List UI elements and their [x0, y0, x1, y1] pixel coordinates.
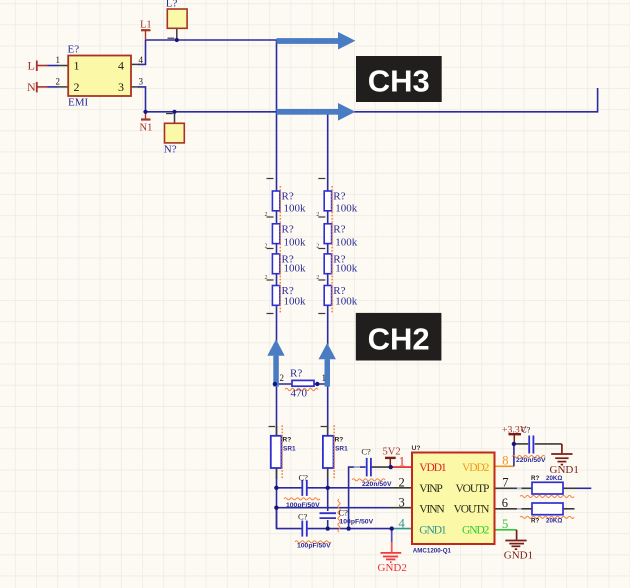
svg-text:GND1: GND1	[419, 524, 447, 536]
svg-text:N?: N?	[164, 144, 177, 156]
pin EMI pin4 stub	[131, 63, 139, 65]
svg-text:SR1: SR1	[335, 445, 348, 452]
svg-text:R?: R?	[531, 518, 539, 525]
svg-text:100pF/50V: 100pF/50V	[286, 502, 320, 509]
pin names U? left	[419, 462, 447, 536]
resistor ladder left column bodies R? 100k x4	[272, 191, 279, 305]
svg-text:220n/50V: 220n/50V	[362, 481, 392, 488]
svg-text:EMI: EMI	[68, 97, 89, 109]
wire VOUTN after 20K	[563, 508, 575, 510]
ground GND1 top-right symbol	[551, 444, 572, 465]
wire VOUTP tail navy	[576, 487, 591, 489]
svg-text:VOUTP: VOUTP	[455, 483, 489, 495]
svg-text:100k: 100k	[335, 203, 358, 215]
svg-text:2: 2	[265, 244, 268, 250]
svg-text:100k: 100k	[335, 236, 358, 248]
wire EMI pin3 to N1 net	[138, 87, 146, 112]
resistor R? 470 body	[292, 380, 314, 386]
label R? SR1 left	[283, 436, 297, 452]
wire VINP net y=487.8	[276, 487, 390, 489]
svg-text:470: 470	[291, 388, 308, 400]
wire VINN net y=507.7	[276, 507, 390, 509]
resistor SR1 left body	[269, 426, 282, 480]
ladder pin tick marks left column	[267, 179, 274, 314]
svg-text:L1: L1	[140, 20, 152, 31]
svg-text:20KΩ: 20KΩ	[546, 475, 562, 482]
port N bracket	[36, 82, 38, 93]
svg-text:2: 2	[265, 275, 268, 281]
svg-text:+3.3V: +3.3V	[502, 424, 527, 435]
resistor R? 20K upper body	[532, 482, 563, 494]
capacitor C? 220n/50V near +3.3V	[529, 436, 533, 454]
label R? 20K lower	[531, 518, 562, 525]
svg-text:R?: R?	[335, 436, 344, 443]
resistor SR1 right body	[321, 426, 334, 480]
label CH2 black box	[356, 313, 442, 361]
svg-text:4: 4	[139, 55, 144, 65]
pin U? pin3 stub	[390, 507, 412, 509]
resistor ladder right column bodies R? 100k x4	[324, 191, 331, 305]
svg-text:100k: 100k	[335, 296, 358, 308]
svg-text:1: 1	[74, 59, 80, 73]
svg-text:R?: R?	[290, 367, 302, 379]
svg-text:R?: R?	[282, 191, 294, 203]
wire +3.3V node to 220n cap	[514, 443, 528, 445]
pin numbers U? left	[399, 454, 406, 530]
ground GND1 bottom symbol (pin5)	[505, 530, 526, 549]
svg-text:220n/50V: 220n/50V	[516, 457, 546, 464]
svg-text:2: 2	[399, 475, 405, 489]
svg-text:GND2: GND2	[462, 524, 490, 536]
squiggle 220n near +3.3V	[512, 455, 545, 457]
junction L? tap	[175, 38, 179, 42]
svg-text:E?: E?	[68, 44, 80, 56]
svg-text:CH3: CH3	[368, 64, 430, 99]
svg-text:3: 3	[139, 76, 144, 86]
compile-mark dotted line SR1 right	[333, 425, 335, 479]
ground GND2 symbol (pin4 net)	[381, 529, 402, 563]
squiggle under 20K upper	[520, 495, 574, 497]
svg-text:7: 7	[502, 476, 508, 490]
labels ladder right column	[333, 191, 358, 308]
svg-text:VDD1: VDD1	[419, 462, 447, 474]
svg-text:AMC1200-Q1: AMC1200-Q1	[413, 548, 452, 555]
junction N? tap	[172, 110, 176, 114]
svg-text:R?: R?	[333, 223, 345, 235]
labels ladder left column	[282, 191, 307, 308]
svg-text:1: 1	[322, 373, 327, 383]
svg-text:GND1: GND1	[504, 549, 533, 561]
junction VINP net right column	[326, 486, 330, 490]
wire L? tap	[176, 28, 178, 40]
faint compile dash pin7	[517, 487, 522, 489]
inductor N? body	[165, 114, 185, 143]
svg-text:GND2: GND2	[378, 562, 407, 574]
capacitor C? 100pF/50V lower (series in bottom net)	[302, 521, 307, 537]
power port N1	[141, 112, 151, 120]
wire N? tap	[174, 112, 176, 124]
svg-text:100k: 100k	[284, 262, 307, 274]
squiggle above 20K lower labels	[520, 516, 574, 518]
svg-text:100pF/50V: 100pF/50V	[297, 543, 331, 550]
svg-text:R?: R?	[283, 436, 292, 443]
wire pin8 to +3.3V node	[513, 444, 515, 466]
pin U? pin6 stub	[495, 508, 533, 510]
svg-text:100k: 100k	[284, 236, 307, 248]
svg-text:N1: N1	[140, 123, 153, 134]
wire left column below SR1	[276, 468, 278, 529]
ladder tiny pin digits left column	[265, 212, 268, 281]
pin U? pin4 stub teal	[392, 528, 412, 530]
svg-text:4: 4	[118, 59, 124, 73]
svg-text:CH2: CH2	[368, 322, 430, 357]
IC U? AMC1200-Q1 body	[412, 453, 495, 545]
svg-text:100pF/50V: 100pF/50V	[340, 518, 374, 525]
squiggle under 470	[285, 388, 318, 390]
junction N1 column	[143, 110, 147, 114]
junction +3.3V node	[512, 442, 516, 446]
svg-text:20KΩ: 20KΩ	[546, 518, 562, 525]
svg-text:VOUTN: VOUTN	[454, 503, 491, 515]
wire 220n cap to 5V2 node	[372, 466, 391, 468]
arrow CH2 left (up-pointing)	[267, 339, 284, 386]
label CH3 black box	[356, 56, 442, 102]
junction bottom net cap branch	[346, 526, 350, 530]
pin numbers U? right	[502, 454, 509, 532]
svg-text:VINP: VINP	[419, 483, 442, 495]
power port +3.3V	[509, 434, 522, 444]
svg-text:C?: C?	[299, 472, 309, 482]
junction 5V2 node	[389, 465, 393, 469]
capacitor C? 100pF/50V upper (series in VINP net)	[302, 480, 307, 496]
port N wire segments	[37, 86, 48, 88]
wire right ladder column	[327, 112, 329, 436]
svg-text:100k: 100k	[284, 203, 307, 215]
label R? 20K upper	[531, 475, 562, 482]
inductor L? body	[167, 9, 187, 38]
pin U? pin8 stub orange	[495, 465, 514, 467]
svg-text:C?: C?	[298, 511, 308, 521]
svg-text:VINN: VINN	[419, 503, 445, 515]
junction VINN net left column	[274, 506, 278, 510]
wire bypass cap branch vertical	[349, 467, 366, 528]
junction R470 left	[273, 382, 277, 386]
svg-text:100k: 100k	[335, 262, 358, 274]
svg-text:R?: R?	[282, 223, 294, 235]
compile-mark dotted line SR1 left	[281, 425, 283, 479]
svg-text:6: 6	[502, 496, 508, 510]
squiggle 100pF lower	[295, 541, 331, 543]
svg-text:2: 2	[265, 212, 268, 218]
svg-text:8: 8	[502, 454, 508, 468]
wire right column below cap C? to bottom net	[327, 520, 329, 529]
power port L1	[141, 30, 151, 40]
pin U? pin5 stub green	[495, 529, 517, 531]
svg-text:3: 3	[118, 80, 124, 94]
svg-text:L: L	[28, 59, 35, 73]
EMI filter E? body	[68, 56, 131, 97]
svg-text:U?: U?	[412, 445, 421, 452]
svg-text:100k: 100k	[284, 296, 307, 308]
svg-text:1: 1	[56, 55, 61, 65]
svg-text:R?: R?	[333, 191, 345, 203]
wire right column below SR1	[327, 468, 329, 511]
junction VINP net left column	[274, 486, 278, 490]
svg-text:SR1: SR1	[283, 445, 296, 452]
wire L1 net horizontal top	[146, 39, 277, 41]
junction bottom net GND2	[390, 526, 394, 530]
svg-text:C?: C?	[361, 447, 371, 457]
wire VOUTP after 20K	[563, 487, 576, 489]
wire GND1 bottom net y=528.6	[277, 508, 392, 529]
wire EMI pin4 to L1 net	[138, 40, 146, 64]
junction bottom net right column	[326, 526, 330, 530]
capacitor C? 100pF/50V vertical on right column	[320, 513, 337, 518]
resistor R? 20K lower body	[532, 503, 563, 515]
pin U? pin2 stub	[390, 487, 412, 489]
svg-text:2: 2	[280, 373, 285, 383]
svg-text:C?: C?	[339, 507, 349, 517]
svg-text:2: 2	[56, 76, 61, 86]
wire N1 net horizontal to right edge	[146, 88, 598, 112]
svg-text:2: 2	[74, 80, 80, 94]
port L bracket	[36, 61, 38, 72]
wire left ladder column	[276, 40, 278, 436]
squiggle 220n near 5V2	[352, 479, 385, 481]
svg-text:3: 3	[399, 495, 405, 509]
svg-text:4: 4	[399, 516, 406, 530]
arrow CH3 top (right-pointing)	[277, 32, 356, 50]
power port 5V2	[385, 458, 396, 467]
svg-text:L?: L?	[166, 0, 178, 10]
svg-text:VDD2: VDD2	[462, 462, 490, 474]
wire R470 row	[275, 383, 328, 385]
svg-text:5: 5	[502, 517, 508, 531]
svg-text:1: 1	[399, 454, 405, 468]
pin U? pin7 stub	[495, 487, 533, 489]
ladder tiny pin digits right column	[316, 212, 319, 281]
capacitor C? 220n/50V near 5V2	[367, 458, 371, 477]
pin names U? right	[454, 462, 491, 536]
compile-mark dotted line right ladder	[331, 186, 333, 313]
vertical squiggle by vertical cap	[338, 499, 340, 532]
compile-mark dotted line left ladder	[279, 186, 281, 313]
port L wire segments	[37, 65, 48, 67]
svg-text:N: N	[27, 80, 36, 94]
label R? SR1 right	[335, 436, 349, 452]
faint compile dash pin6	[517, 508, 522, 510]
junction R470 right	[315, 382, 319, 386]
pin U? pin1 stub red	[391, 466, 412, 468]
arrow CH2 right (up-pointing)	[319, 343, 336, 387]
faint compile dash 220n cap left	[354, 466, 360, 468]
ladder pin tick marks right column	[318, 179, 325, 314]
pin EMI pin3 stub	[131, 86, 139, 88]
svg-text:R?: R?	[531, 475, 539, 482]
arrow CH3 bottom (right-pointing)	[277, 103, 356, 121]
wire 220n cap to GND1 corner	[535, 443, 562, 445]
squiggle 100pF upper	[284, 498, 320, 500]
